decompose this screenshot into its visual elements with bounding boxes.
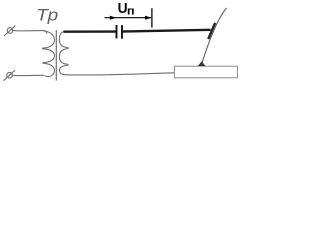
- terminal bottom-left: [4, 70, 16, 81]
- wire: top terminal to primary: [13, 31, 47, 34]
- transformer T primary winding (left, 3 bumps toward core): [42, 31, 54, 77]
- capacitor C left plate: [116, 25, 118, 38]
- electrode slanted arm: [202, 8, 227, 65]
- arrowhead mid (right-pointing): [110, 16, 116, 20]
- arrowhead right (right-pointing): [145, 16, 151, 20]
- reference tick: [151, 8, 153, 27]
- svg-text:Тр: Тр: [36, 5, 58, 24]
- thick wire: secondary top to capacitor: [64, 30, 116, 33]
- contact blob on workpiece: [198, 61, 206, 66]
- thick wire: capacitor to electrode: [123, 30, 211, 32]
- svg-text:п: п: [127, 4, 135, 17]
- electrode junction thick mark: [208, 23, 215, 39]
- terminal top-left: [4, 26, 16, 37]
- workpiece rectangle: [174, 66, 237, 78]
- wire: bottom terminal to primary: [12, 74, 44, 76]
- transformer core: [55, 30, 57, 80]
- capacitor C right plate: [121, 25, 123, 38]
- wire: secondary bottom to workpiece: [63, 73, 175, 75]
- transformer secondary winding (right, 3 bumps toward core): [59, 32, 68, 75]
- dimension line under Uп: [105, 17, 152, 19]
